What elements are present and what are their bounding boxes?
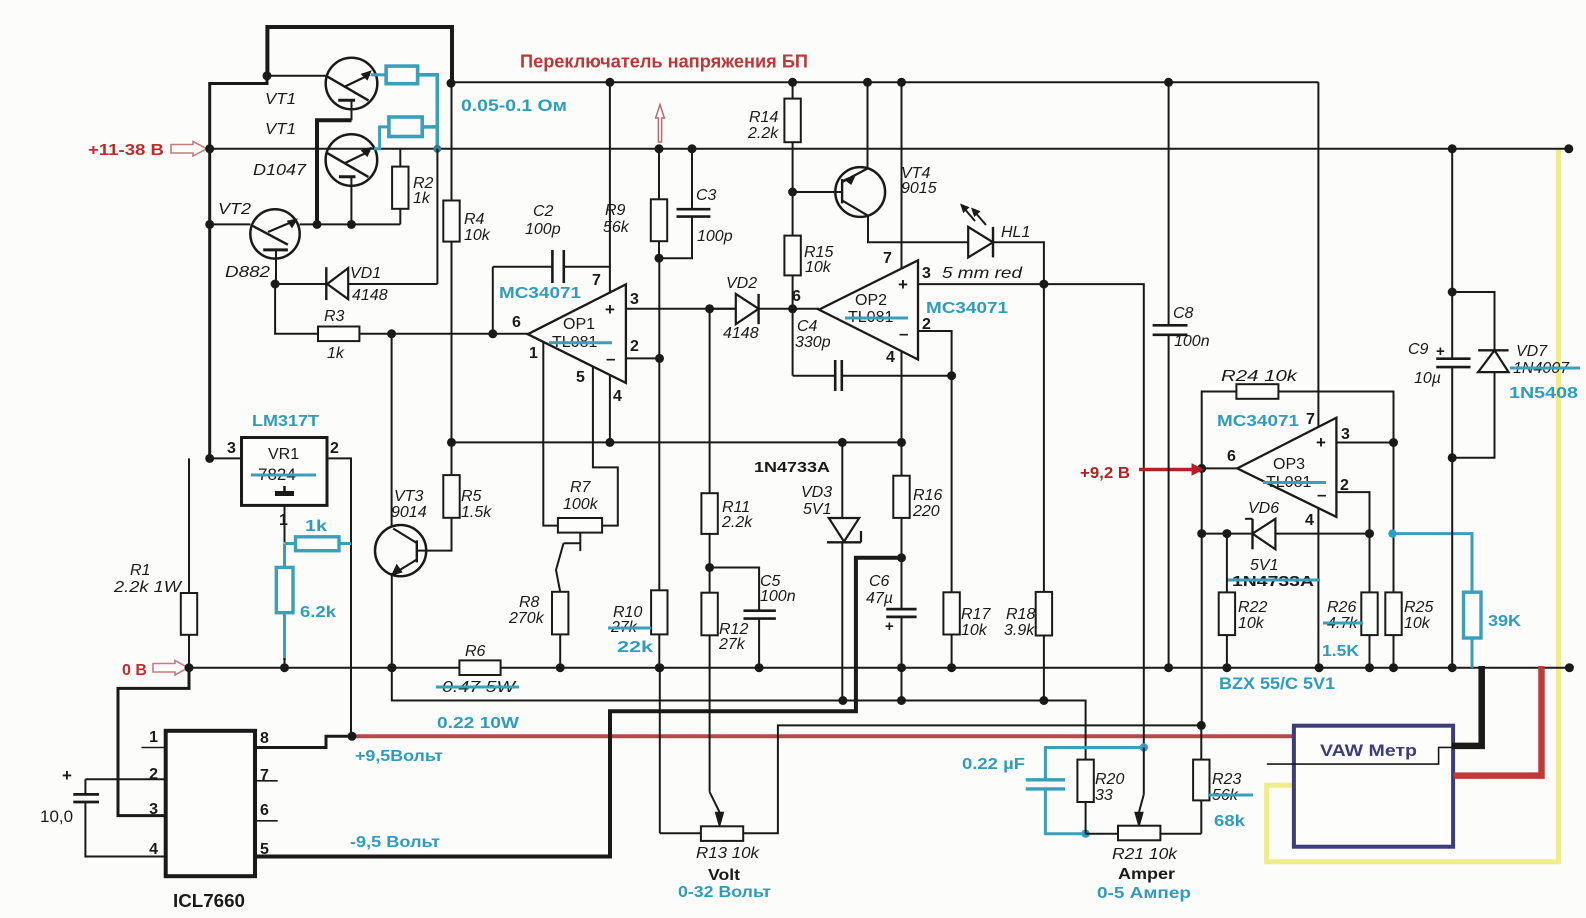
svg-text:VT1: VT1 <box>265 121 296 138</box>
wire mid bus y=442.4 <box>452 441 902 443</box>
svg-text:9015: 9015 <box>901 180 937 197</box>
svg-text:4: 4 <box>886 349 895 366</box>
resistor R22 (10k) <box>1226 534 1228 593</box>
svg-text:R9: R9 <box>605 202 626 219</box>
potentiometer R13 (10k) <box>701 826 743 841</box>
input arrow +11-38V <box>171 142 207 157</box>
resistor R23 (56k->68k) <box>1200 800 1202 833</box>
svg-text:100n: 100n <box>760 588 796 605</box>
node cyan sense <box>1140 743 1148 751</box>
VAW meter box <box>1294 726 1453 847</box>
svg-text:47µ: 47µ <box>866 590 893 607</box>
resistor R18 (3.9k) <box>1036 592 1052 636</box>
node 0V bus <box>755 663 764 672</box>
svg-text:56k: 56k <box>603 219 630 236</box>
wire R3 to OP1 pin6 <box>359 333 528 335</box>
wire VT2 base <box>210 223 251 225</box>
svg-text:ICL7660: ICL7660 <box>173 891 245 911</box>
svg-text:10k: 10k <box>805 259 832 276</box>
wire OP3 pin6 <box>1202 467 1238 469</box>
resistor R15 (10k) <box>792 192 794 236</box>
svg-text:2: 2 <box>149 766 158 783</box>
wire R24 left down (R24/pin6/VD6/R23 column) <box>1202 392 1237 726</box>
svg-text:10k: 10k <box>464 227 491 244</box>
node R11/R12/C5 <box>705 563 714 572</box>
svg-text:2.2k: 2.2k <box>747 125 779 142</box>
svg-text:6: 6 <box>260 802 269 819</box>
resistor R14 (2.2k) <box>792 82 794 98</box>
op-amp OP1 triangle <box>528 284 626 383</box>
resistor 39K (cyan) <box>1395 534 1472 593</box>
transistor VT1 (upper D1047) <box>326 58 378 110</box>
svg-text:7: 7 <box>883 250 892 267</box>
wire yellow meter wire <box>1267 149 1559 862</box>
wire 0V hook to ICL pin3 <box>118 668 189 816</box>
resistor R16 (220) <box>901 442 903 475</box>
wire VR1 pin2 down to +9.5 node <box>327 458 351 736</box>
svg-text:OP3: OP3 <box>1273 456 1305 473</box>
node pin3/R11 junction <box>705 304 714 313</box>
svg-text:R24 10k: R24 10k <box>1221 368 1298 385</box>
node C9 bottom branch <box>1448 453 1457 462</box>
resistor shunt 1 (cyan) <box>386 66 418 84</box>
svg-text:270k: 270k <box>508 610 545 627</box>
resistor R5 (1.5k) <box>451 442 453 475</box>
svg-text:5V1: 5V1 <box>803 501 831 518</box>
node pin3/R24R/R25 <box>1389 438 1398 447</box>
arrow 0V <box>153 661 188 676</box>
svg-text:+9,5Вольт: +9,5Вольт <box>355 748 443 765</box>
node R4/R5 mid bus <box>447 438 456 447</box>
node +11-38 input <box>205 144 214 153</box>
svg-text:7: 7 <box>1306 411 1315 428</box>
svg-text:R7: R7 <box>570 479 592 496</box>
diode VD6 (5V1) <box>1202 533 1253 535</box>
svg-text:0 В: 0 В <box>122 662 147 679</box>
svg-text:4: 4 <box>613 388 622 405</box>
wire R24 right to pin3 column <box>1278 392 1393 593</box>
svg-text:2.2k 1W: 2.2k 1W <box>113 579 183 596</box>
svg-text:+: + <box>62 766 72 785</box>
svg-text:R17: R17 <box>961 606 991 623</box>
wire OP2 pin2 <box>918 331 952 376</box>
node cyan pickoff on R25 column <box>1388 529 1396 537</box>
svg-text:Amper: Amper <box>1118 866 1175 883</box>
svg-text:C8: C8 <box>1173 305 1194 322</box>
node VD6 left <box>1197 529 1206 538</box>
node VT1 base <box>263 71 272 80</box>
node 0V bus <box>1565 663 1574 672</box>
wire OP3 pin4 down to bus <box>1317 508 1319 668</box>
svg-text:0.22 10W: 0.22 10W <box>437 715 520 732</box>
svg-text:22k: 22k <box>617 639 653 656</box>
R7 wiper <box>579 533 581 551</box>
svg-text:0.22 µF: 0.22 µF <box>962 756 1025 773</box>
node D1047 emitter junction <box>347 220 356 229</box>
node C9 top branch <box>1448 288 1457 297</box>
wire ICL pin8 to +9.5 node <box>255 736 352 747</box>
wire VT3 emitter down to 0V <box>391 573 393 668</box>
wire collector row y=224.4 <box>300 223 401 225</box>
node rail R14 <box>788 78 797 87</box>
wire R13 wiper feedback line y=725.4 <box>743 725 1201 833</box>
node R13 left bus <box>655 663 664 672</box>
svg-text:5V1: 5V1 <box>1250 557 1278 574</box>
op-amp OP3 triangle <box>1237 418 1336 517</box>
svg-text:0-5 Ампер: 0-5 Ампер <box>1097 885 1191 902</box>
wire thick black meter lead <box>1452 666 1482 746</box>
svg-text:2: 2 <box>330 440 339 457</box>
node VT4 emitter rail <box>863 78 872 87</box>
svg-text:+: + <box>885 618 894 635</box>
svg-text:6.2k: 6.2k <box>300 604 336 621</box>
svg-text:Переключатель напряжения БП: Переключатель напряжения БП <box>520 52 808 72</box>
node 0V bus <box>388 663 397 672</box>
node C9 rail <box>1448 144 1457 153</box>
svg-text:R5: R5 <box>461 488 482 505</box>
svg-text:3: 3 <box>227 440 236 457</box>
node LED/pin3 junction <box>1039 280 1048 289</box>
svg-text:VT1: VT1 <box>265 91 296 108</box>
svg-text:0.05-0.1 Ом: 0.05-0.1 Ом <box>461 96 567 115</box>
wire OP1 pin7 <box>609 82 611 292</box>
svg-text:R1: R1 <box>130 562 150 579</box>
svg-text:VT2: VT2 <box>218 201 251 218</box>
node R8 bus <box>556 663 565 672</box>
svg-text:6: 6 <box>512 314 521 331</box>
wire R13 left from bus <box>659 668 661 834</box>
svg-text:VD7: VD7 <box>1516 343 1548 360</box>
wire VT4 collector to LED <box>868 216 968 243</box>
svg-text:33: 33 <box>1095 787 1113 804</box>
resistor R24 (10k) <box>1236 384 1278 399</box>
svg-text:39K: 39K <box>1488 613 1521 630</box>
chip ICL7660 box <box>166 731 255 876</box>
svg-text:100p: 100p <box>697 228 733 245</box>
svg-text:10µ: 10µ <box>1414 370 1441 387</box>
node OP1 pin7 rail <box>605 78 614 87</box>
svg-text:D1047: D1047 <box>253 162 307 179</box>
node 0V bus <box>1222 663 1231 672</box>
svg-text:1: 1 <box>149 729 158 746</box>
R21 wiper from sense <box>1143 748 1145 795</box>
wire VT1 emitter to shunt (thick step) <box>317 120 352 224</box>
svg-text:–: – <box>1317 485 1326 504</box>
node C2 junction <box>488 329 497 338</box>
node 0V bus <box>1315 663 1324 672</box>
svg-text:7: 7 <box>592 272 601 289</box>
wire VT4 base <box>793 191 836 193</box>
resistor R7 (100k) pot <box>558 518 602 533</box>
svg-text:–: – <box>606 349 615 368</box>
node mid bus R16 <box>897 438 906 447</box>
wire VT4 emitter up <box>867 82 869 168</box>
svg-text:5: 5 <box>576 369 585 386</box>
node C6 on sense line <box>897 696 906 705</box>
svg-text:1k: 1k <box>305 518 327 535</box>
svg-text:7: 7 <box>260 767 269 784</box>
svg-text:1: 1 <box>529 345 538 362</box>
svg-text:OP2: OP2 <box>855 292 887 309</box>
svg-text:27k: 27k <box>718 636 746 653</box>
node 0V bus <box>947 663 956 672</box>
wire OP1 pin4 to mid bus <box>609 375 611 442</box>
svg-text:1N5408: 1N5408 <box>1509 385 1578 402</box>
svg-text:3: 3 <box>630 291 639 308</box>
svg-text:8: 8 <box>260 730 269 747</box>
transistor VT1 (lower D1047) <box>326 134 378 186</box>
wire OP3 pin7 up to rail corner <box>1317 82 1319 427</box>
svg-text:VAW Метр: VAW Метр <box>1320 741 1417 760</box>
svg-text:BZX 55/C 5V1: BZX 55/C 5V1 <box>1219 674 1335 693</box>
node rail right end <box>1564 144 1573 153</box>
wire VR1 pin3 <box>210 457 242 459</box>
svg-text:D882: D882 <box>225 264 270 281</box>
resistor shunt 2 (cyan) <box>389 117 422 137</box>
svg-text:R14: R14 <box>749 109 778 126</box>
svg-text:10k: 10k <box>1238 615 1265 632</box>
svg-text:10,0: 10,0 <box>40 807 73 826</box>
resistor R26 (4.7k->1.5K) <box>1369 534 1371 593</box>
svg-text:1N4733A: 1N4733A <box>754 459 830 476</box>
transistor VT4 (9015) <box>835 167 885 217</box>
svg-text:R21 10k: R21 10k <box>1112 846 1178 863</box>
svg-text:4148: 4148 <box>723 325 759 342</box>
wire LED to R18 column <box>993 242 1044 592</box>
svg-text:HL1: HL1 <box>1001 224 1030 241</box>
node C4 right / pin2 <box>947 371 956 380</box>
resistor R8 (270k) <box>552 592 568 635</box>
node shunt junction on rail (cyan) <box>433 145 441 153</box>
capacitor C9 (10u) <box>1451 149 1453 359</box>
resistor R12 (27k) <box>701 593 717 636</box>
svg-text:-9,5 Вольт: -9,5 Вольт <box>350 834 440 851</box>
svg-text:VD3: VD3 <box>801 484 832 501</box>
node +9.5V junction <box>348 732 357 741</box>
wire R12 down to R13 wiper <box>709 635 711 792</box>
wire VR1 pin1 <box>284 505 286 542</box>
svg-text:–: – <box>899 324 908 343</box>
capacitor C4 (330p) <box>792 309 794 376</box>
wire OP2 pin4 to mid bus <box>901 352 903 443</box>
wire thin black meter lead <box>1267 747 1460 764</box>
svg-text:OP1: OP1 <box>563 316 595 333</box>
resistor R20 (33) <box>1077 760 1093 802</box>
svg-text:4: 4 <box>1305 512 1314 529</box>
wire OP3 pin2 <box>1336 492 1369 533</box>
svg-text:Volt: Volt <box>708 867 741 884</box>
wire +11-38V rail y=148.7 <box>210 148 1569 150</box>
node VT2 emitter / VD1 <box>271 280 280 289</box>
node OP1 pin2 / R10 <box>655 354 664 363</box>
svg-text:VD2: VD2 <box>726 275 757 292</box>
svg-text:MC34071: MC34071 <box>499 285 581 302</box>
svg-text:10k: 10k <box>1404 615 1431 632</box>
wire OP3 pin3 <box>1336 442 1393 444</box>
diode VD1 (4148) <box>436 149 438 284</box>
node VD6 R22 <box>1222 529 1231 538</box>
wire OP2 pin3 line to sense <box>918 284 1144 747</box>
svg-text:+11-38 В: +11-38 В <box>88 142 164 159</box>
svg-text:10k: 10k <box>961 622 988 639</box>
svg-text:R8: R8 <box>519 594 540 611</box>
svg-text:4: 4 <box>149 841 158 858</box>
wire OP2 pin7 <box>901 82 903 268</box>
wire OP1 pin3 line <box>626 308 736 310</box>
zener VD3 (5V1 1N4733A) <box>841 442 843 518</box>
node cyan R20/R21 <box>1081 830 1089 838</box>
node VT3 collector junction <box>387 329 396 338</box>
svg-text:+: + <box>1316 433 1326 452</box>
resistor R2 <box>392 167 408 209</box>
svg-text:R20: R20 <box>1095 771 1124 788</box>
resistor R6 (0.47->0.22) in series <box>459 660 500 675</box>
wire 0V bus y=667.7 (left part) <box>189 667 459 669</box>
svg-text:C2: C2 <box>533 203 554 220</box>
node 6.2k on 0V bus <box>280 663 289 672</box>
node top rail left end <box>447 79 456 88</box>
svg-text:2.2k: 2.2k <box>721 514 753 531</box>
svg-text:1k: 1k <box>413 190 431 207</box>
wire top collector loop (thick) <box>267 25 452 29</box>
svg-text:R3: R3 <box>324 308 345 325</box>
svg-text:VD1: VD1 <box>350 265 381 282</box>
svg-text:3: 3 <box>1341 426 1350 443</box>
node C3 top on rail <box>688 144 697 153</box>
node 0V bus <box>1389 663 1398 672</box>
svg-text:100p: 100p <box>525 221 561 238</box>
svg-text:R23: R23 <box>1212 771 1241 788</box>
wire base feed from node down-left to +11-38 rail <box>210 76 267 459</box>
svg-text:R6: R6 <box>465 643 486 660</box>
svg-text:+: + <box>898 275 908 294</box>
wire sense line y=700.5 <box>392 668 1086 760</box>
svg-text:R26: R26 <box>1327 599 1356 616</box>
wire ICL pin2 to cap plus <box>85 778 165 780</box>
resistor R11 (2.2k) <box>709 309 711 493</box>
svg-text:VR1: VR1 <box>268 446 299 463</box>
node OP1 pin4 <box>605 438 614 447</box>
node VD6 right / R26 <box>1365 529 1374 538</box>
node 0V bus <box>1448 663 1457 672</box>
svg-text:68k: 68k <box>1214 813 1245 830</box>
node C8 rail <box>1164 78 1173 87</box>
wire VD1 node down to R3 <box>275 284 318 334</box>
svg-text:2: 2 <box>630 338 639 355</box>
wire R2 bottom corner <box>399 209 401 225</box>
node R9/C3 bottom <box>655 254 664 263</box>
svg-text:VT3: VT3 <box>394 488 423 505</box>
svg-text:C4: C4 <box>797 318 818 335</box>
svg-text:VD6: VD6 <box>1248 500 1279 517</box>
resistor 1k (cyan) <box>296 537 340 551</box>
red up arrow <box>656 105 665 143</box>
capacitor C3 (100p) <box>691 149 693 209</box>
svg-text:4148: 4148 <box>352 287 388 304</box>
capacitor C6 (47u) <box>901 558 903 609</box>
diode VD2 (4148) <box>710 308 736 310</box>
resistor R3 <box>318 327 359 342</box>
resistor R10 (27k->22k) <box>651 590 667 634</box>
wire OP1 pin1 to R7 <box>543 343 558 526</box>
LED HL1 <box>968 227 993 258</box>
svg-text:+9,2 В: +9,2 В <box>1080 465 1130 482</box>
wire 0V bus y=667.7 (right part) <box>501 667 1570 669</box>
resistor R25 (10k) <box>1393 443 1395 593</box>
node OP3 pin6 <box>1197 464 1206 473</box>
transistor VT3 (9014) <box>375 525 426 576</box>
VR1 minus mark <box>283 486 286 492</box>
svg-text:100k: 100k <box>563 496 599 513</box>
svg-text:R18: R18 <box>1006 606 1035 623</box>
svg-text:100n: 100n <box>1174 333 1210 350</box>
node C6 on 0V bus <box>897 663 906 672</box>
node 0V bus <box>1365 663 1374 672</box>
wire OP1 pin2 line <box>626 357 660 359</box>
svg-text:5: 5 <box>260 841 269 858</box>
svg-text:R4: R4 <box>464 211 485 228</box>
wire R9 node down to pin2 node and R10 <box>658 258 660 590</box>
resistor 6.2k (cyan) <box>283 544 286 568</box>
node OP2 pin6 <box>788 304 797 313</box>
wire -9.5V thick path <box>255 558 902 857</box>
svg-text:C6: C6 <box>869 573 890 590</box>
node VT3 emitter bus <box>387 663 396 672</box>
node R16/C6/-9.5 junction <box>897 553 906 562</box>
svg-text:C9: C9 <box>1408 341 1429 358</box>
node VR1 pin3 <box>205 454 214 463</box>
node R9 top on rail <box>655 144 664 153</box>
svg-text:R16: R16 <box>913 487 942 504</box>
wire top supply rail y=82 <box>452 81 1318 83</box>
node R6 right bus <box>559 667 561 669</box>
node OP2 pin7 rail <box>897 78 906 87</box>
svg-text:3.9k: 3.9k <box>1004 622 1035 639</box>
svg-text:MC34071: MC34071 <box>1217 413 1299 430</box>
resistor R9 (56k) <box>658 149 660 200</box>
node 0V bus <box>1164 663 1173 672</box>
resistor R1 (2.2k 1W) <box>188 458 190 593</box>
resistor R17 (10k) <box>951 376 953 593</box>
svg-text:1.5K: 1.5K <box>1322 643 1359 660</box>
svg-text:1k: 1k <box>327 345 345 362</box>
svg-text:MC34071: MC34071 <box>926 300 1008 317</box>
node VD3 bottom sense <box>838 696 847 705</box>
svg-text:LM317T: LM317T <box>252 413 319 430</box>
wire +9.5V red power wire <box>352 734 1294 738</box>
capacitor 0.22uF (cyan) <box>1045 748 1143 780</box>
svg-text:220: 220 <box>912 503 940 520</box>
diode VD7 (1N4007->1N5408) <box>1452 292 1494 350</box>
svg-text:R22: R22 <box>1238 599 1267 616</box>
capacitor C2 (100p) <box>493 266 553 268</box>
wire red meter lead right <box>1454 666 1542 776</box>
node R13 line / R23 <box>1197 721 1206 730</box>
svg-text:R13 10k: R13 10k <box>696 845 760 862</box>
node R18 bottom on sense line <box>1039 696 1048 705</box>
capacitor C5 (100n) <box>710 568 760 611</box>
svg-text:0-32 Вольт: 0-32 Вольт <box>678 884 771 901</box>
wire VT1 base <box>267 75 327 77</box>
svg-text:330p: 330p <box>795 334 831 351</box>
svg-text:1.5k: 1.5k <box>461 504 492 521</box>
node VT2 base <box>205 220 214 229</box>
svg-text:9014: 9014 <box>391 504 427 521</box>
node thick-emitter junction <box>313 220 322 229</box>
node mid bus VD3 <box>838 438 847 447</box>
node VT4 base <box>788 188 797 197</box>
op-amp OP2 triangle <box>819 260 918 359</box>
